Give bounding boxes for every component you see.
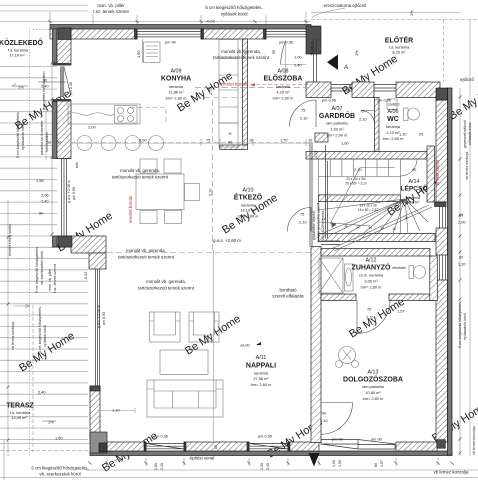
door dolgozoszoba bottom-left <box>321 403 353 435</box>
zuhanyzo toilet <box>409 266 414 279</box>
window top 1 (kitchen) <box>137 32 201 37</box>
dim line 6,20 nappali <box>213 250 215 442</box>
svg-text:A/11: A/11 <box>256 355 267 361</box>
kitchen corner L wall vertical <box>89 253 106 269</box>
cap lower-left wall top <box>90 386 100 391</box>
wall zuhanyzo top (szerelt fal) <box>321 249 430 257</box>
svg-text:+2,46 m: +2,46 m <box>309 42 314 56</box>
door left wall (kozlekedo) sliding leaf <box>60 67 64 97</box>
door zuhanyzo->dolgozo <box>357 301 390 334</box>
svg-text:2,40: 2,40 <box>160 463 164 470</box>
svg-text:vb lemez konzolja: vb lemez konzolja <box>472 426 476 455</box>
svg-text:14: 14 <box>380 227 384 231</box>
section triangle top (A) <box>327 55 338 71</box>
svg-text:2,10: 2,10 <box>320 418 328 423</box>
svg-text:55: 55 <box>271 50 276 54</box>
tiny stair specs <box>345 177 378 212</box>
svg-text:A: A <box>343 65 348 71</box>
svg-text:g.a.s. +2,46 m: g.a.s. +2,46 m <box>67 180 71 203</box>
left wall upper segment <box>57 29 71 65</box>
svg-text:4,29 m²: 4,29 m² <box>276 90 290 95</box>
svg-text:1%: 1% <box>409 10 414 16</box>
svg-text:pm 0,06: pm 0,06 <box>154 434 168 439</box>
svg-text:monolit vb. gerenda,: monolit vb. gerenda, <box>120 168 160 173</box>
svg-text:1,60: 1,60 <box>341 141 349 146</box>
svg-text:tartószerkezeti tervek szerint: tartószerkezeti tervek szerint <box>112 175 169 180</box>
right wall insulation <box>448 88 453 455</box>
zuhanyzo washbasin <box>345 264 354 291</box>
svg-text:mon. vb. pillér: mon. vb. pillér <box>97 3 125 8</box>
svg-text:ejtőcső: ejtőcső <box>460 77 474 82</box>
svg-text:8,25 m²: 8,25 m² <box>392 50 406 55</box>
door eloszoba->gardrob <box>290 100 317 127</box>
svg-text:A/07: A/07 <box>331 106 342 112</box>
left wall insulation <box>53 29 58 63</box>
svg-text:2,00: 2,00 <box>88 125 96 130</box>
svg-text:1,20: 1,20 <box>458 262 466 267</box>
shower tray <box>319 258 343 293</box>
svg-text:5 cm kiegészítő hőszigetelés,: 5 cm kiegészítő hőszigetelés, <box>205 5 262 10</box>
svg-text:tartószerkezeti tervek szerint: tartószerkezeti tervek szerint <box>138 286 195 291</box>
svg-text:t.sz. tervek szerint: t.sz. tervek szerint <box>53 264 57 293</box>
sofa <box>147 380 223 417</box>
svg-text:TERASZ: TERASZ <box>6 403 34 410</box>
wall zuhanyzo bottom left part <box>321 294 356 301</box>
svg-text:1,00: 1,00 <box>332 460 336 467</box>
section triangle bottom <box>309 453 320 467</box>
svg-text:2,40: 2,40 <box>41 199 49 204</box>
kitchen tall cabinet strip <box>219 40 238 124</box>
svg-text:KONYHA: KONYHA <box>161 76 191 83</box>
stair boundary lines <box>319 159 401 234</box>
stair tread numbers <box>322 216 408 231</box>
top wall segment mid <box>201 29 266 39</box>
eloszoba glass partition <box>314 39 317 82</box>
svg-text:eltolható: eltolható <box>392 266 406 270</box>
terrace dashed boundary <box>32 305 34 452</box>
left wall mid segment <box>57 100 71 159</box>
svg-text:KÖZLEKEDŐ: KÖZLEKEDŐ <box>0 38 44 47</box>
svg-text:bm= 2,80 m: bm= 2,80 m <box>238 214 259 219</box>
svg-text:-0,02: -0,02 <box>206 19 215 24</box>
fridge cabinet <box>144 42 161 63</box>
wall stairs/zuhanyzo <box>319 234 436 242</box>
red dashed emelet kontur lines <box>250 84 311 86</box>
svg-text:NAPPALI: NAPPALI <box>246 363 276 370</box>
svg-text:A/06: A/06 <box>387 109 398 115</box>
svg-text:20 x 15² x 30²: 20 x 15² x 30² <box>346 177 366 181</box>
svg-text:monolit vb. gerenda,: monolit vb. gerenda, <box>221 49 261 54</box>
svg-text:75: 75 <box>367 307 371 312</box>
window right wall (stairs) <box>440 207 446 229</box>
svg-text:80: 80 <box>374 463 378 467</box>
svg-text:bm= 2,80 m: bm= 2,80 m <box>363 396 384 401</box>
left vert dim lines <box>29 28 31 456</box>
svg-text:2,10: 2,10 <box>366 315 374 320</box>
bottom wall segments <box>107 442 146 451</box>
svg-text:vb. szerkezetek körül: vb. szerkezetek körül <box>39 472 80 477</box>
svg-text:mon. vb. pillér: mon. vb. pillér <box>48 268 52 291</box>
svg-text:2,79: 2,79 <box>208 87 213 95</box>
wall konyha/eloszoba foot <box>220 145 248 150</box>
svg-text:A/12: A/12 <box>365 258 376 264</box>
dolgozo round table <box>339 347 356 364</box>
svg-text:2,10: 2,10 <box>300 116 308 121</box>
svg-text:2,20: 2,20 <box>208 188 213 196</box>
cap right wall top <box>436 88 448 100</box>
svg-text:19 x 16 x 30: 19 x 16 x 30 <box>359 204 377 208</box>
svg-text:pm 0,00: pm 0,00 <box>72 187 76 200</box>
svg-text:1,60: 1,60 <box>136 50 141 58</box>
svg-text:pm 0,30: pm 0,30 <box>69 82 73 95</box>
svg-text:nyílások körül: nyílások körül <box>221 12 248 17</box>
svg-text:14,19 m²: 14,19 m² <box>240 208 256 213</box>
svg-text:2,10: 2,10 <box>359 117 367 122</box>
svg-text:vb lemez kontúrja: vb lemez kontúrja <box>11 322 15 350</box>
svg-text:75: 75 <box>301 108 305 113</box>
svg-text:1,80: 1,80 <box>154 463 158 470</box>
svg-text:toló: toló <box>75 162 79 168</box>
dim line 1,10 terrace <box>100 408 135 413</box>
kitchen island <box>68 104 140 124</box>
top right dim line <box>311 12 460 14</box>
kitchen corner L wall horizontal <box>71 236 106 253</box>
window right wall (zuhanyzo) <box>440 255 446 280</box>
interior dim row y142 <box>71 142 310 144</box>
svg-text:WC: WC <box>387 116 399 123</box>
svg-text:bm= 2,80 m: bm= 2,80 m <box>383 136 404 141</box>
svg-text:gipszbeton lépcső,: gipszbeton lépcső, <box>312 210 316 240</box>
svg-text:nyílászárók körül: nyílászárók körül <box>463 313 467 340</box>
svg-text:lam.parketta: lam.parketta <box>326 121 348 126</box>
svg-text:12: 12 <box>356 225 360 229</box>
svg-text:11,88 m²: 11,88 m² <box>168 90 184 95</box>
mech chase by stairs <box>427 146 435 202</box>
island break wavy line <box>68 113 115 116</box>
svg-text:18 x 50 = 2,87: 18 x 50 = 2,87 <box>358 208 379 212</box>
window jamb caps bottom wall <box>144 442 146 451</box>
svg-text:g.a.s. +2,46 m: g.a.s. +2,46 m <box>97 305 101 328</box>
wall below gardrob (stairs top) <box>306 152 427 160</box>
top wall segment left <box>50 29 137 39</box>
svg-text:1,70: 1,70 <box>280 138 288 143</box>
bottom insulation band <box>90 451 452 456</box>
stair treads lower flight winders <box>319 199 429 234</box>
svg-text:cs.m. kerámia: cs.m. kerámia <box>359 273 384 278</box>
svg-text:5 cm kiegészítő hőszigetelés,: 5 cm kiegészítő hőszigetelés, <box>38 306 42 353</box>
wc toilet <box>404 108 409 121</box>
nappali armchair 2 <box>189 312 219 342</box>
glass wall nappali left <box>96 269 100 386</box>
svg-text:pm 90: pm 90 <box>165 40 177 45</box>
eloszoba window small arc <box>281 41 286 65</box>
svg-text:27,56 m²: 27,56 m² <box>253 376 269 381</box>
wall zuhanyzo bottom right part <box>389 294 434 301</box>
interior dim row y143 stools line <box>71 142 310 144</box>
sliding door bottom (nappali/dolgozo) <box>321 440 395 450</box>
svg-text:17,10 m²: 17,10 m² <box>9 53 25 58</box>
svg-text:2,10: 2,10 <box>354 167 362 172</box>
svg-text:20 x 95² = 3,10: 20 x 95² = 3,10 <box>345 182 367 186</box>
bottom dim lines <box>0 470 478 478</box>
svg-text:tartószerkezeti tervek szerint: tartószerkezeti tervek szerint <box>118 255 175 260</box>
pillar top-left <box>58 28 71 40</box>
window jamb caps top wall <box>135 29 138 39</box>
svg-text:ELŐSZOBA: ELŐSZOBA <box>264 74 303 83</box>
svg-text:16: 16 <box>404 216 408 220</box>
svg-text:A/10: A/10 <box>242 188 253 194</box>
svg-text:bm= 2,90 m: bm= 2,90 m <box>273 96 294 101</box>
svg-text:12,49 m²: 12,49 m² <box>11 415 27 420</box>
svg-text:4,25: 4,25 <box>313 150 318 158</box>
svg-text:bm= 2,80 m: bm= 2,80 m <box>251 382 272 387</box>
svg-text:emelet kontúr: emelet kontúr <box>435 159 440 185</box>
svg-text:75: 75 <box>206 138 210 143</box>
window porch wall (wc) <box>374 85 396 92</box>
svg-text:bm= 2,80 m: bm= 2,80 m <box>361 285 382 290</box>
svg-text:6,20: 6,20 <box>205 335 210 343</box>
svg-text:pm 0,06: pm 0,06 <box>322 98 336 103</box>
svg-text:építési vonal: építési vonal <box>190 456 215 461</box>
pillar bottom-left corner <box>90 432 107 453</box>
wall gardrob/wc <box>375 98 380 152</box>
window bottom 1 <box>146 444 184 450</box>
leader lines <box>92 14 94 24</box>
wc washbasin <box>387 99 397 110</box>
stair walk line with arrow <box>330 168 395 225</box>
cooktop <box>115 106 138 124</box>
svg-text:szellőző: szellőző <box>388 103 400 107</box>
svg-text:ÉTKEZŐ: ÉTKEZŐ <box>234 193 263 202</box>
svg-text:tartószerkezeti tervek szerint: tartószerkezeti tervek szerint <box>213 55 270 60</box>
dining table <box>136 174 184 210</box>
cap right wall above stairs window <box>435 202 447 207</box>
door gardrob->wc <box>361 111 375 125</box>
wall zuhanyzo right <box>430 256 438 301</box>
svg-text:emelet erkély kontúr: emelet erkély kontúr <box>8 223 12 256</box>
svg-text:pm 90: pm 90 <box>332 437 344 442</box>
window bottom 2 <box>249 444 288 450</box>
pillar entry corner <box>306 26 321 54</box>
svg-text:pm 90: pm 90 <box>371 437 383 442</box>
lower-left wall by terrace <box>90 386 100 442</box>
svg-text:75: 75 <box>300 212 304 217</box>
svg-text:1,00: 1,00 <box>260 463 264 470</box>
svg-text:pm 0,00: pm 0,00 <box>258 434 273 439</box>
svg-text:80: 80 <box>214 445 218 449</box>
svg-text:gépészeti ejtőcső: gépészeti ejtőcső <box>463 120 467 148</box>
svg-text:1%: 1% <box>354 50 359 56</box>
svg-text:légvezetés homlokzaton: légvezetés homlokzaton <box>42 71 46 110</box>
svg-text:10: 10 <box>332 223 336 227</box>
under-stairs opening lines <box>321 241 340 245</box>
floor deck lines left corridor and terrace <box>0 67 88 440</box>
svg-text:±0,00: ±0,00 <box>240 343 251 348</box>
svg-text:1,58: 1,58 <box>36 178 44 183</box>
svg-text:előlazott síkra: előlazott síkra <box>468 123 472 145</box>
svg-text:A/13: A/13 <box>367 370 378 376</box>
svg-text:pm 0,00: pm 0,00 <box>102 312 106 325</box>
svg-text:3,00 m²: 3,00 m² <box>364 279 378 284</box>
svg-text:vb lemez kontúrja: vb lemez kontúrja <box>465 152 469 180</box>
svg-text:1,57: 1,57 <box>397 309 405 314</box>
svg-text:5 cm kiegészítő hőszigetelés,: 5 cm kiegészítő hőszigetelés, <box>35 246 39 293</box>
svg-text:2,00: 2,00 <box>458 220 466 225</box>
svg-text:ELŐTÉR: ELŐTÉR <box>385 36 413 45</box>
svg-text:kerámia: kerámia <box>169 84 184 89</box>
stair treads upper flight <box>330 159 389 177</box>
svg-text:H: H <box>229 131 232 136</box>
svg-text:5 cm kiegészítő hőszigetelés,: 5 cm kiegészítő hőszigetelés, <box>458 301 462 348</box>
svg-text:bm= 2,90 m: bm= 2,90 m <box>327 133 348 138</box>
svg-text:-0,02: -0,02 <box>114 458 123 463</box>
coffee table <box>160 350 208 375</box>
svg-text:A/14: A/14 <box>408 179 419 185</box>
pillar kitchen corner bottom <box>58 236 72 247</box>
svg-text:emelet kontúr: emelet kontúr <box>220 82 248 87</box>
right wall <box>436 100 448 202</box>
right vert dim lines <box>460 20 470 456</box>
svg-text:1%: 1% <box>18 85 24 90</box>
svg-text:páraelszívó kivezetés: páraelszívó kivezetés <box>40 120 44 155</box>
svg-text:lam.parketta: lam.parketta <box>362 384 384 389</box>
window left wall lower (glass) <box>62 159 67 237</box>
svg-text:pofafal geometria szerint: pofafal geometria szerint <box>317 203 321 242</box>
etkezo/stairs wall lines <box>310 142 312 247</box>
svg-text:ZUHANYZÓ: ZUHANYZÓ <box>352 263 391 272</box>
svg-text:15: 15 <box>392 227 396 231</box>
wall konyha/eloszoba <box>243 39 248 145</box>
svg-text:1,10: 1,10 <box>112 408 120 413</box>
wall nappali/dolgozoszoba <box>311 247 321 443</box>
svg-text:1,50: 1,50 <box>55 436 63 441</box>
svg-text:1,00: 1,00 <box>294 55 302 60</box>
porch back wall segments <box>306 82 331 98</box>
entry door porch wall <box>331 85 352 92</box>
svg-text:vb. szerkezetek körül: vb. szerkezetek körül <box>40 251 44 285</box>
nappali armchair 1 <box>150 312 181 342</box>
svg-text:11: 11 <box>344 224 348 228</box>
svg-text:2,40: 2,40 <box>38 390 46 395</box>
top dim line <box>0 21 311 23</box>
stairs left edge <box>326 145 328 239</box>
svg-text:75: 75 <box>360 109 364 114</box>
top right dashed porch line <box>311 19 478 21</box>
svg-text:monolit vb. gerenda,: monolit vb. gerenda, <box>126 248 166 253</box>
door etkezo side wall <box>287 208 311 232</box>
svg-text:1,90 m²: 1,90 m² <box>330 127 344 132</box>
svg-text:vb lemez konzolja: vb lemez konzolja <box>434 470 469 475</box>
pillar bottom-right corner <box>437 440 445 449</box>
dining chairs <box>140 159 157 173</box>
wall stub below eloszoba door <box>315 133 328 142</box>
svg-text:nyílászárók körül: nyílászárók körül <box>21 123 25 150</box>
stair door top arc <box>401 159 418 176</box>
svg-text:kerámia: kerámia <box>254 371 269 376</box>
bar stools <box>77 136 92 151</box>
svg-text:2,10: 2,10 <box>299 220 307 225</box>
svg-text:5,58 m²: 5,58 m² <box>406 200 420 205</box>
svg-text:2,40: 2,40 <box>266 463 270 470</box>
eloszoba interior dim <box>281 42 306 80</box>
svg-text:10,80 m²: 10,80 m² <box>365 390 381 395</box>
svg-text:3,00: 3,00 <box>139 138 147 143</box>
svg-text:A/08: A/08 <box>277 69 288 75</box>
svg-text:bm= 2,80 m: bm= 2,80 m <box>166 96 187 101</box>
svg-text:1,07: 1,07 <box>380 460 384 467</box>
svg-text:homlokzaton: homlokzaton <box>45 132 49 152</box>
stair mid landing wall <box>319 195 401 202</box>
svg-text:DOLGOZÓSZOBA: DOLGOZÓSZOBA <box>343 375 403 384</box>
svg-text:szerelt elfalazás: szerelt elfalazás <box>272 294 304 299</box>
svg-text:ereszcsatorna ejtőcső: ereszcsatorna ejtőcső <box>324 3 367 8</box>
svg-text:nyílások körül: nyílások körül <box>43 325 47 347</box>
svg-text:g.a.s. +2,60 m: g.a.s. +2,60 m <box>213 238 241 243</box>
window top 2 (eloszoba) <box>266 32 306 37</box>
beams dashed <box>195 86 311 88</box>
svg-text:GARDRÓB: GARDRÓB <box>319 111 355 120</box>
svg-text:2,40: 2,40 <box>294 63 302 68</box>
top insulation band <box>50 25 311 30</box>
svg-text:5 cm kiegészítő hőszigetelés,: 5 cm kiegészítő hőszigetelés, <box>31 466 88 471</box>
svg-text:bontható: bontható <box>279 288 297 293</box>
svg-text:t.sz. tervek szerint: t.sz. tervek szerint <box>93 9 129 14</box>
svg-text:kerámia: kerámia <box>386 124 401 129</box>
svg-text:20x16/20*cm mlsz: 20x16/20*cm mlsz <box>321 210 325 240</box>
svg-text:pm 0,06: pm 0,06 <box>279 40 293 45</box>
leader vb lemez konturja left <box>13 305 30 308</box>
svg-text:1,90: 1,90 <box>338 460 342 467</box>
svg-text:13: 13 <box>368 226 372 230</box>
svg-text:A/09: A/09 <box>170 69 181 75</box>
svg-text:5 cm kiegészítő hőszigetelés,: 5 cm kiegészítő hőszigetelés, <box>16 111 20 158</box>
svg-text:emelet kontúr: emelet kontúr <box>128 195 133 223</box>
svg-text:kerámia: kerámia <box>276 84 291 89</box>
svg-text:LÉPCSŐ: LÉPCSŐ <box>400 184 427 193</box>
svg-text:1,30: 1,30 <box>399 132 407 137</box>
svg-text:monolit vb. gerenda,: monolit vb. gerenda, <box>146 279 186 284</box>
svg-text:-0,02: -0,02 <box>84 272 88 280</box>
svg-text:1%: 1% <box>48 420 54 425</box>
top-left horiz dim lines <box>0 5 88 11</box>
svg-text:2,06: 2,06 <box>41 193 49 198</box>
stair break line <box>331 205 432 251</box>
